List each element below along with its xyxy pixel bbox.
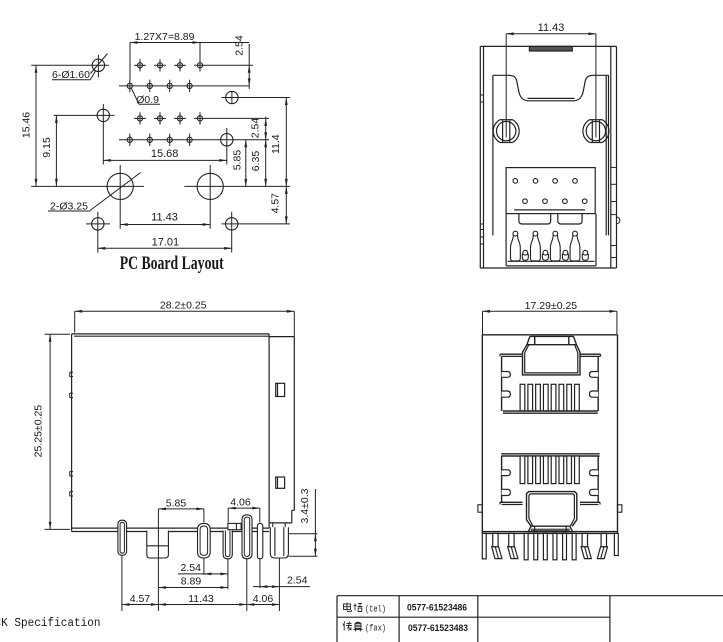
svg-text:15.68: 15.68 — [151, 148, 179, 160]
title block table — [337, 596, 723, 642]
contact spring comb — [508, 231, 595, 261]
dimension 15.46 left — [20, 65, 37, 186]
svg-text:5.85: 5.85 — [166, 498, 187, 510]
svg-text:17.29±0.25: 17.29±0.25 — [525, 300, 578, 312]
left edge shield dimple — [480, 95, 483, 244]
svg-text:2.54: 2.54 — [287, 575, 308, 587]
dimension 5.85 above pins — [158, 498, 204, 558]
PC Board Layout view: top dimension 1.27X7=8.89 — [130, 31, 249, 80]
bottom comb block walls — [506, 214, 596, 266]
lower port bottom tab — [528, 526, 573, 532]
extension line at big-hole centerline y=186.4 — [31, 185, 290, 187]
dimension 11.43 bottom — [120, 212, 210, 226]
shield leg right — [614, 533, 618, 555]
svg-text:8.89: 8.89 — [181, 575, 202, 587]
hole H4 dia1.60 right-middle — [221, 128, 233, 164]
pin P5 inner wall — [244, 517, 249, 556]
dimension 2.54 below pins — [178, 562, 228, 575]
front view left side tab — [478, 505, 482, 512]
hole H2 dia1.60 left-middle — [54, 104, 115, 164]
lower port side walls — [502, 456, 599, 502]
pin P4 inner wall — [225, 531, 230, 557]
svg-text:4.06: 4.06 — [230, 497, 251, 509]
dimension 2.54 (row1-row2 pitch) — [234, 35, 251, 89]
pin P4 loop — [223, 531, 232, 559]
screw post left — [493, 118, 519, 144]
upper port contact comb 8x — [520, 384, 579, 411]
svg-text:11.43: 11.43 — [151, 212, 178, 224]
lower port base lines — [501, 454, 599, 456]
upper port side walls — [502, 356, 599, 411]
housing holes row A 4x — [513, 179, 577, 184]
top view inner side walls — [493, 75, 609, 235]
lower port wings — [500, 502, 600, 504]
hole H6 dia1.60 bottom-right — [222, 212, 291, 253]
screw post right — [583, 118, 609, 144]
dimension 11.43 bottom — [158, 593, 246, 606]
top view top tab — [529, 46, 572, 51]
dimension 4.06 above pins — [228, 497, 260, 523]
latch tab right — [558, 214, 582, 224]
front view right side tab — [618, 505, 622, 512]
label dianhua (tel) — [344, 603, 387, 615]
svg-text:CK Specification: CK Specification — [0, 617, 101, 630]
housing holes row B 4x — [523, 199, 587, 204]
latch tab left — [519, 214, 551, 224]
dimension 17.01 bottom — [98, 236, 232, 249]
upper port top tab — [527, 336, 577, 344]
svg-text:4.06: 4.06 — [253, 593, 274, 605]
top view shell outline — [480, 46, 616, 268]
svg-text:28.2±0.25: 28.2±0.25 — [160, 300, 207, 312]
side view left edge notches — [70, 372, 73, 496]
kink foot leg 2 — [508, 533, 518, 558]
lower port latch block — [527, 492, 577, 527]
top view dimension 11.43 — [506, 22, 596, 35]
shield leg left — [482, 533, 486, 559]
label 6-dia1.60 with leader — [52, 69, 96, 81]
side view dimension 25.25+-0.25 — [33, 334, 71, 529]
top view inner shell notch contour — [493, 75, 609, 101]
svg-text:11.43: 11.43 — [538, 22, 565, 34]
svg-text:2.54: 2.54 — [180, 562, 201, 574]
dimension 2.54 bottom right — [253, 575, 310, 588]
svg-text:4.57: 4.57 — [270, 193, 282, 214]
flange window lower — [276, 477, 285, 488]
dimension 5.85 right — [231, 140, 247, 187]
label dia0.9 with leader — [132, 89, 161, 107]
svg-text:15.46: 15.46 — [20, 112, 32, 138]
svg-text:25.25±0.25: 25.25±0.25 — [33, 405, 45, 458]
front view shell outline — [482, 335, 617, 534]
kink foot leg 4 — [597, 533, 607, 558]
kink foot leg 3 — [581, 533, 591, 558]
svg-text:9.15: 9.15 — [41, 137, 53, 158]
pin P1 kink loop — [118, 520, 127, 555]
big hole B dia3.25 — [197, 165, 223, 229]
dimension 4.06 bottom — [247, 593, 280, 606]
svg-text:6.35: 6.35 — [250, 151, 262, 172]
pin P3 loop — [198, 523, 211, 558]
svg-text:3.4±0.3: 3.4±0.3 — [299, 488, 311, 523]
lower port contact comb 8x — [520, 456, 579, 484]
contact housing block — [506, 168, 595, 214]
flange window upper — [276, 383, 285, 396]
lower port key bumps left — [502, 470, 511, 496]
press-fit peg P7 — [270, 523, 288, 558]
svg-text:2.54: 2.54 — [249, 118, 261, 139]
row3 pin holes 4x — [134, 112, 269, 124]
pin P1 inner wall — [120, 522, 124, 553]
pin P5 tall loop — [242, 515, 252, 559]
pocket edge tab — [228, 523, 241, 529]
dimension 8.89 below pins — [158, 575, 228, 589]
pin P3 inner wall — [200, 526, 208, 555]
extension lines from 11.43 into screws — [506, 34, 596, 138]
kink foot leg 1 — [492, 533, 502, 558]
svg-text:0577-61523483: 0577-61523483 — [408, 623, 468, 634]
plastic post P2 — [147, 531, 169, 559]
svg-text:0577-61523486: 0577-61523486 — [407, 603, 467, 614]
upper port latch block — [523, 345, 581, 375]
svg-text:11.4: 11.4 — [270, 134, 282, 154]
svg-text:PC Board Layout: PC Board Layout — [120, 253, 224, 274]
side view dimension 28.2+-0.25 — [75, 300, 295, 337]
row1 pin holes 4x — [31, 59, 253, 71]
side view front flange — [269, 337, 294, 523]
label 2-dia3.25 — [48, 200, 90, 212]
contact pin tails 6x — [524, 533, 576, 559]
dimension 2.54 and 6.35 right — [249, 117, 267, 187]
upper port key bumps right — [590, 372, 599, 398]
row2 pin holes 4x — [119, 80, 249, 92]
dimension 9.15 left — [41, 115, 58, 186]
svg-text:17.01: 17.01 — [152, 236, 180, 248]
hole H1 6-dia1.60 top-left with slash — [91, 54, 108, 78]
hole H3 dia1.60 right-upper — [222, 91, 291, 104]
svg-text:5.85: 5.85 — [231, 150, 243, 171]
upper port wings — [500, 354, 601, 356]
svg-text:(fax): (fax) — [365, 624, 386, 634]
front view dimension 17.29+-0.25 — [483, 300, 617, 335]
pin P6 thin — [257, 523, 262, 558]
hole H5 dia1.60 bottom-left — [86, 212, 110, 253]
label chuanzhen (fax) — [343, 622, 386, 634]
lower port key bumps right — [590, 470, 599, 496]
dimension 15.68 — [103, 148, 227, 162]
row4 pin holes 4x — [119, 134, 269, 146]
big hole A 2-dia3.25 with slash — [90, 165, 141, 229]
side view body outline — [72, 334, 270, 532]
svg-text:1.27X7=8.89: 1.27X7=8.89 — [135, 31, 195, 43]
right edge shield details — [611, 167, 620, 257]
upper port base lines — [503, 411, 598, 413]
extension lines below pins — [122, 555, 280, 611]
svg-text:11.43: 11.43 — [188, 593, 214, 605]
svg-text:2.54: 2.54 — [234, 35, 246, 56]
dimension 3.4+-0.3 right — [288, 488, 317, 556]
upper port key bumps left — [502, 372, 511, 398]
svg-text:(tel): (tel) — [365, 604, 386, 614]
dimension 4.57 bottom — [122, 593, 158, 606]
dimension 11.4 and 4.57 far right — [270, 98, 288, 224]
svg-text:4.57: 4.57 — [130, 593, 151, 605]
